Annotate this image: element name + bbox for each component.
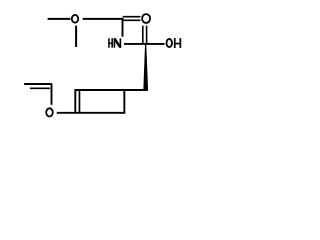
node O (methoxy oxygen) <box>72 15 78 23</box>
wire O-to-carbamate-carbon bond <box>83 18 124 20</box>
wire ring left edge (C=C main line) <box>74 89 76 114</box>
wire ring bottom edge plus O-to-ring bond <box>57 112 125 114</box>
wire vinyl C=C upper (main) line <box>24 83 52 85</box>
wire C=O double bond upper line (carbamate carbonyl) <box>123 16 141 18</box>
node O of OH (carboxylic acid) <box>167 39 173 47</box>
wire methyl-to-O bond (top left) <box>48 18 71 20</box>
wire ring C=C inner double bond line <box>78 90 80 113</box>
wire acid C=O double bond inner line (vertical) <box>142 26 144 44</box>
node H of HN (amide) <box>108 38 113 47</box>
node H of OH (carboxylic acid) <box>174 38 181 48</box>
wire ring right edge <box>123 89 125 114</box>
wire C=O double bond lower line (carbamate carbonyl) <box>123 19 140 21</box>
wedge bond from acid carbon down to ring CH2 <box>143 45 148 91</box>
wire vinyl C=C lower (inner) line <box>30 87 50 89</box>
wire methyl stub below methoxy O <box>75 26 77 47</box>
node O (carbonyl oxygen, top right) <box>142 14 150 23</box>
wire acid C=O double bond main line (vertical) <box>146 26 148 44</box>
wire carbamate C to N bond (vertical) <box>122 18 124 37</box>
wire ring top edge and bond to wedge carbon <box>75 89 147 91</box>
node O (vinyl ether oxygen) <box>46 108 53 116</box>
wire vinyl CH to O bond (vertical) <box>51 84 53 105</box>
node N of HN (amide nitrogen) <box>114 38 122 47</box>
wire N to acid carbon to OH bond (horizontal) <box>124 43 165 45</box>
